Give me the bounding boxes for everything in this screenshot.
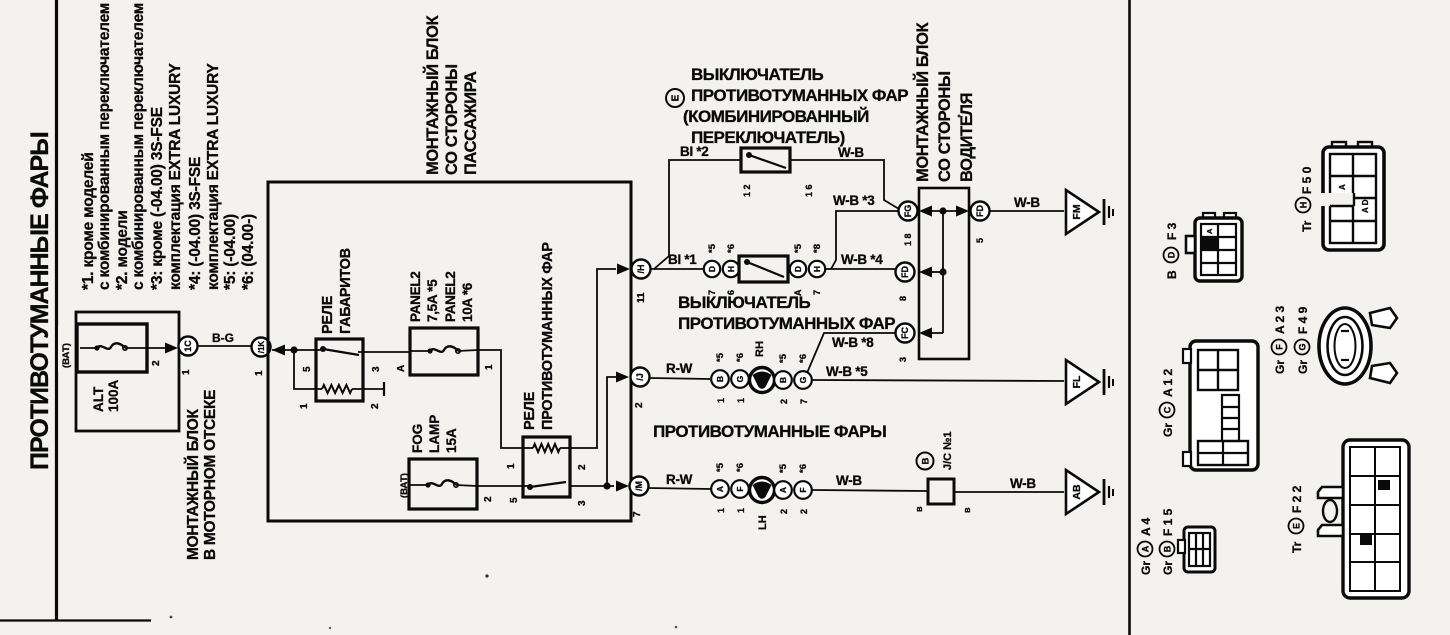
svg-text:E: E	[671, 94, 682, 101]
svg-text:ПРОТИВОТУМАННЫХ ФАР: ПРОТИВОТУМАННЫХ ФАР	[691, 86, 908, 105]
svg-text:PANEL2: PANEL2	[408, 272, 423, 322]
svg-text:с комбинированным переключател: с комбинированным переключателем	[130, 3, 147, 290]
wire R-W to LH lamp	[649, 488, 711, 489]
svg-text:*6: *6	[726, 244, 737, 253]
svg-text:LAMP: LAMP	[427, 415, 442, 453]
svg-text:F: F	[798, 487, 808, 492]
ground FM	[1066, 190, 1099, 234]
connector F (pin 2, *6)	[794, 481, 812, 499]
svg-text:R-W: R-W	[666, 472, 693, 487]
svg-text:ВЫКЛЮЧАТЕЛЬ: ВЫКЛЮЧАТЕЛЬ	[678, 293, 811, 312]
svg-text:МОНТАЖНЫЙ БЛОК: МОНТАЖНЫЙ БЛОК	[913, 21, 932, 182]
svg-text:комплектация EXTRA LUXURY: комплектация EXTRA LUXURY	[205, 62, 222, 290]
svg-text:A: A	[715, 486, 725, 492]
svg-text:*5: *5	[715, 462, 726, 472]
svg-text:ПРОТИВОТУМАННЫЕ ФАРЫ: ПРОТИВОТУМАННЫЕ ФАРЫ	[26, 132, 54, 470]
svg-text:3: 3	[898, 357, 908, 362]
svg-text:A: A	[1141, 545, 1151, 552]
svg-text:FL: FL	[1071, 375, 1083, 388]
svg-text:G: G	[735, 375, 745, 382]
svg-text:2: 2	[634, 402, 645, 408]
svg-text:/J: /J	[635, 373, 645, 381]
connector Gr F A23 / Gr G F49 oval	[1272, 305, 1398, 384]
svg-text:ВОДИТЕЛЯ: ВОДИТЕЛЯ	[958, 93, 976, 182]
mounting block driver side box	[919, 188, 969, 359]
wire BI*1 row	[650, 268, 704, 270]
svg-text:/M: /M	[634, 481, 644, 491]
ground AB	[1066, 470, 1099, 514]
internal bus: arrows and junctions	[919, 206, 932, 217]
svg-text:8: 8	[898, 296, 908, 301]
svg-text:*5: *5	[793, 243, 804, 253]
wire fuse to fog relay pin5	[477, 485, 530, 487]
svg-text:7: 7	[799, 399, 809, 404]
svg-text:BI *2: BI *2	[680, 144, 709, 159]
svg-text:PANEL2: PANEL2	[443, 272, 458, 322]
svg-text:ПРОТИВОТУМАННЫХ ФАР: ПРОТИВОТУМАННЫХ ФАР	[540, 242, 556, 430]
svg-text:15A: 15A	[444, 428, 459, 453]
svg-text:/1K: /1K	[257, 341, 266, 354]
svg-text:5: 5	[509, 497, 520, 503]
svg-text:D: D	[707, 266, 717, 272]
connector E	[666, 89, 684, 107]
wire W-B*5 to ground FL	[812, 380, 1064, 381]
svg-text:*6: *6	[735, 463, 746, 472]
svg-text:Gr: Gr	[1273, 360, 1287, 374]
svg-text:*6: *6	[798, 464, 809, 473]
scan specks	[485, 574, 488, 577]
wire BI*2 fork from H	[654, 160, 741, 269]
connector 1C	[179, 337, 198, 356]
connector 1K	[252, 338, 271, 357]
svg-text:A: A	[396, 365, 407, 372]
svg-text:*5: *5	[707, 243, 718, 253]
svg-text:A: A	[778, 487, 788, 493]
svg-text:*2. модели: *2. модели	[114, 210, 131, 290]
wire fog relay pin3 to connectors M and J	[570, 485, 614, 487]
svg-text:F 4 9: F 4 9	[1296, 306, 1310, 334]
svg-text:F 1 5: F 1 5	[1161, 508, 1175, 536]
connector B (pin 2, *5)	[774, 371, 792, 389]
fog lamp RH	[750, 368, 775, 393]
svg-text:с комбинированным переключател: с комбинированным переключателем	[96, 3, 113, 290]
svg-text:*1. кроме моделей: *1. кроме моделей	[80, 152, 97, 290]
svg-text:FD: FD	[975, 205, 985, 217]
junction dot	[290, 346, 297, 353]
wire ALT to 1C with arrow	[165, 343, 178, 354]
svg-text:7: 7	[632, 511, 643, 517]
svg-text:1 8: 1 8	[903, 233, 913, 246]
wire 1K to tail relay	[272, 345, 285, 356]
svg-text:*6: *6	[798, 354, 809, 363]
relay РЕЛЕ ПРОТИВОТУМАННЫХ ФАР	[523, 437, 570, 497]
fuse FOG LAMP 15A	[409, 459, 477, 509]
svg-text:LH: LH	[757, 515, 769, 530]
connector G (pin 1, *6)	[731, 370, 749, 388]
svg-text:СО СТОРОНЫ: СО СТОРОНЫ	[936, 71, 954, 182]
svg-text:2: 2	[779, 509, 789, 514]
svg-text:G: G	[1298, 343, 1308, 350]
svg-text:W-B *4: W-B *4	[841, 252, 883, 267]
connector FG (pin 18)	[899, 202, 918, 221]
connector G (pin 7, *6)	[794, 371, 812, 389]
svg-text:2: 2	[799, 509, 809, 514]
svg-text:1: 1	[484, 364, 495, 370]
svg-text:A: A	[1205, 228, 1214, 234]
svg-text:E: E	[1292, 523, 1302, 529]
svg-text:*5: *5	[778, 463, 789, 473]
ground FL	[1066, 360, 1099, 404]
wire W-B to J/C	[812, 490, 928, 491]
svg-text:F: F	[1275, 344, 1285, 350]
svg-text:МОНТАЖНЫЙ БЛОК: МОНТАЖНЫЙ БЛОК	[184, 409, 202, 560]
svg-text:*6: (04.00-): *6: (04.00-)	[240, 214, 257, 290]
svg-text:Gr: Gr	[1161, 561, 1175, 575]
switch fog lamp (combined switch)	[741, 148, 790, 172]
svg-text:RH: RH	[754, 341, 766, 357]
connector /J (pin 2)	[631, 368, 650, 387]
svg-text:A: A	[1338, 184, 1347, 190]
connector Gr A A4 / Gr B F15	[1138, 508, 1216, 575]
svg-text:комплектация EXTRA LUXURY: комплектация EXTRA LUXURY	[167, 62, 184, 290]
svg-text:W-B *5: W-B *5	[826, 364, 868, 379]
svg-text:Gr: Gr	[1161, 423, 1175, 437]
connector H (pin 6, *6)	[723, 261, 739, 277]
svg-text:ГАБАРИТОВ: ГАБАРИТОВ	[338, 248, 354, 334]
connector H (pin 7, *8)	[809, 261, 825, 277]
svg-text:1: 1	[716, 398, 726, 403]
switch fog lights	[739, 256, 788, 282]
svg-text:В МОТОРНОМ ОТСЕКЕ: В МОТОРНОМ ОТСЕКЕ	[202, 390, 219, 560]
svg-text:Tr: Tr	[1300, 220, 1314, 232]
connector FD left (pin 8)	[896, 263, 915, 282]
svg-text:2: 2	[370, 403, 381, 409]
svg-text:*6: *6	[735, 353, 746, 362]
svg-text:2: 2	[483, 496, 494, 502]
svg-text:B: B	[921, 457, 932, 464]
svg-text:AB: AB	[1071, 484, 1083, 500]
connector B (pin 1, *5)	[711, 370, 729, 388]
svg-text:Tr: Tr	[1290, 541, 1304, 553]
svg-text:W-B *3: W-B *3	[833, 193, 875, 208]
svg-text:F 3: F 3	[1165, 222, 1179, 240]
connector panel separator rule	[1128, 0, 1131, 635]
connector D (pin 7, *5)	[704, 261, 720, 277]
wire W-B FD to ground FM	[989, 210, 1064, 212]
svg-text:РЕЛЕ: РЕЛЕ	[320, 295, 336, 334]
svg-text:B: B	[1163, 545, 1173, 552]
svg-text:C: C	[1163, 406, 1173, 413]
connector FC (pin 3)	[896, 324, 915, 343]
svg-text:1C: 1C	[183, 340, 193, 352]
connector A (pin 1, *5)	[711, 480, 729, 498]
svg-text:*5: (-04.00): *5: (-04.00)	[222, 214, 239, 290]
svg-text:/H: /H	[636, 265, 646, 274]
svg-text:F 2 2: F 2 2	[1290, 485, 1304, 513]
svg-text:H: H	[726, 266, 736, 272]
svg-text:FOG: FOG	[410, 424, 425, 453]
relay coil branch	[294, 350, 322, 389]
wire W-B*4 to FD	[825, 268, 899, 270]
svg-text:(ВАТ): (ВАТ)	[399, 473, 410, 498]
svg-text:G: G	[798, 376, 808, 383]
svg-text:*5: *5	[715, 352, 726, 362]
svg-text:5: 5	[975, 238, 985, 243]
connector Tr H F50	[1296, 142, 1385, 250]
svg-text:*3: кроме (-04.00) 3S-FSE: *3: кроме (-04.00) 3S-FSE	[149, 107, 166, 290]
svg-text:ПРОТИВОТУМАННЫХ ФАР: ПРОТИВОТУМАННЫХ ФАР	[678, 314, 895, 333]
wire W-B*3 to FG	[831, 211, 898, 269]
svg-text:Gr: Gr	[1296, 360, 1310, 374]
svg-text:W-B: W-B	[838, 145, 864, 160]
svg-text:СО СТОРОНЫ: СО СТОРОНЫ	[443, 64, 461, 175]
fuse PANEL2 7.5A/10A	[410, 328, 478, 375]
svg-text:3: 3	[577, 500, 588, 506]
wire B-G	[197, 345, 252, 347]
mounting block engine compartment box	[76, 312, 179, 431]
svg-text:A D: A D	[1361, 199, 1370, 213]
svg-text:FM: FM	[1071, 204, 1083, 219]
svg-text:ПАССАЖИРА: ПАССАЖИРА	[462, 71, 480, 175]
svg-text:(ВАТ): (ВАТ)	[61, 343, 72, 368]
svg-text:A 4: A 4	[1139, 517, 1153, 536]
svg-text:1 6: 1 6	[804, 184, 814, 197]
wire W-B to ground AB	[954, 491, 1064, 493]
wire W-B*8 FC to lamp row	[807, 333, 895, 373]
connector A (pin 2, *5)	[774, 481, 792, 499]
fuse ALT 100A	[77, 324, 147, 372]
svg-text:1: 1	[736, 508, 746, 513]
title separator rule	[55, 0, 58, 620]
svg-text:в: в	[914, 506, 924, 512]
mounting block passenger side box	[268, 182, 631, 521]
svg-text:ВЫКЛЮЧАТЕЛЬ: ВЫКЛЮЧАТЕЛЬ	[691, 65, 824, 84]
svg-text:1 2: 1 2	[742, 184, 752, 197]
svg-text:Gr: Gr	[1139, 561, 1153, 575]
wire W-B combined switch to FG	[790, 160, 899, 209]
relay РЕЛЕ ГАБАРИТОВ	[316, 339, 363, 401]
svg-text:FD: FD	[900, 266, 910, 278]
svg-text:FG: FG	[903, 205, 913, 218]
svg-text:W-B: W-B	[1014, 195, 1040, 210]
page corner line bottom-left	[0, 619, 151, 621]
junction connector B	[917, 453, 934, 470]
svg-text:1: 1	[736, 398, 746, 403]
junction box J/C	[928, 479, 954, 504]
svg-text:100A: 100A	[106, 379, 121, 412]
connector B D F3	[1164, 213, 1243, 281]
svg-text:F 5 0: F 5 0	[1300, 166, 1314, 194]
svg-text:A 2 3: A 2 3	[1273, 305, 1287, 334]
svg-text:3: 3	[371, 366, 382, 372]
svg-text:1: 1	[299, 403, 310, 409]
fog lamp LH	[750, 478, 775, 503]
svg-text:D: D	[1167, 251, 1177, 258]
svg-text:D: D	[793, 266, 803, 272]
wire R-W to RH lamp	[650, 378, 710, 379]
svg-text:A 1 2: A 1 2	[1161, 368, 1175, 397]
svg-text:10A *6: 10A *6	[460, 282, 475, 322]
svg-text:7: 7	[812, 290, 822, 295]
svg-text:B-G: B-G	[212, 331, 234, 345]
svg-text:1: 1	[716, 508, 726, 513]
svg-text:5: 5	[302, 366, 313, 372]
svg-text:МОНТАЖНЫЙ БЛОК: МОНТАЖНЫЙ БЛОК	[423, 14, 442, 175]
svg-text:1: 1	[506, 463, 517, 469]
connector Tr E F22	[1289, 440, 1410, 598]
svg-text:7,5A *5: 7,5A *5	[425, 279, 440, 322]
svg-text:BI *1: BI *1	[668, 252, 697, 267]
svg-text:2: 2	[151, 360, 162, 366]
wire fog relay pin2 to connector H	[570, 269, 616, 448]
svg-text:*5: *5	[778, 353, 789, 363]
svg-text:РЕЛЕ: РЕЛЕ	[522, 391, 538, 430]
svg-text:2: 2	[577, 464, 588, 470]
svg-text:2: 2	[779, 399, 789, 404]
connector F (pin 1, *6)	[731, 480, 749, 498]
svg-text:B: B	[715, 376, 725, 382]
svg-text:F: F	[735, 486, 745, 491]
svg-text:ПЕРЕКЛЮЧАТЕЛЬ): ПЕРЕКЛЮЧАТЕЛЬ)	[691, 128, 845, 147]
svg-text:W-B: W-B	[1010, 476, 1036, 491]
svg-text:ALT: ALT	[91, 386, 106, 412]
svg-text:в: в	[962, 507, 972, 513]
svg-text:11: 11	[636, 292, 647, 303]
connector Gr C A12	[1160, 341, 1259, 470]
svg-text:*8: *8	[812, 244, 823, 253]
svg-text:B: B	[778, 377, 788, 383]
connector FD right (pin 5)	[971, 202, 990, 221]
connector /H (pin 11)	[632, 260, 651, 279]
svg-text:1: 1	[181, 369, 192, 375]
svg-text:R-W: R-W	[666, 361, 693, 376]
connector D (pin A, *5)	[790, 261, 806, 277]
svg-text:1: 1	[254, 370, 265, 376]
svg-text:(КОМБИНИРОВАННЫЙ: (КОМБИНИРОВАННЫЙ	[683, 107, 869, 126]
svg-text:H: H	[812, 266, 822, 272]
svg-text:FC: FC	[900, 327, 910, 339]
svg-text:B: B	[1165, 270, 1179, 279]
wire PANEL2 to fog relay pin1	[478, 350, 523, 448]
svg-text:ПРОТИВОТУМАННЫЕ ФАРЫ: ПРОТИВОТУМАННЫЕ ФАРЫ	[653, 422, 886, 441]
svg-text:H: H	[1299, 202, 1309, 209]
svg-text:J/C №1: J/C №1	[942, 431, 954, 470]
connector /M (pin 7)	[630, 477, 649, 496]
svg-text:W-B *8: W-B *8	[832, 335, 874, 350]
svg-text:W-B: W-B	[836, 473, 862, 488]
svg-text:*4: (-04.00) 3S-FSE: *4: (-04.00) 3S-FSE	[187, 157, 204, 290]
